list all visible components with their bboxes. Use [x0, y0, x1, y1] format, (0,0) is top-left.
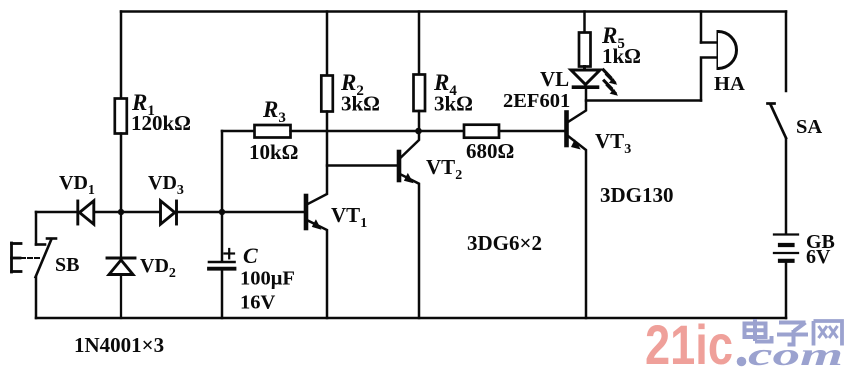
svg-text:1kΩ: 1kΩ [602, 44, 641, 68]
wire node to VD3 [124, 211, 161, 214]
wire R2 to VT1 collector [308, 112, 327, 205]
LED VL [571, 67, 600, 88]
svg-text:16V: 16V [240, 292, 276, 314]
wire R5 upper lead [583, 12, 586, 33]
watermark char zi [777, 323, 808, 345]
wire C branch vertical [221, 131, 224, 261]
resistor R3 [255, 125, 291, 138]
svg-text:VT2: VT2 [426, 155, 462, 183]
svg-text:C: C [243, 243, 258, 268]
switch SA blade [768, 104, 787, 139]
watermark char wang [814, 321, 843, 346]
wire VT2 base [327, 164, 397, 167]
svg-text:VT3: VT3 [595, 129, 631, 157]
diode VD3 [161, 201, 177, 224]
svg-text:3kΩ: 3kΩ [341, 92, 380, 116]
wire VD1 to node [94, 211, 118, 214]
capacitor C plus sign [225, 249, 235, 258]
svg-text:SA: SA [796, 116, 822, 138]
svg-text:2EF601: 2EF601 [503, 90, 570, 112]
wire SA lower lead [785, 139, 788, 234]
wire VD3 to VT1 base [177, 211, 305, 214]
watermark char dian [745, 319, 772, 342]
svg-text:SB: SB [55, 254, 79, 276]
svg-text:6V: 6V [806, 246, 831, 268]
resistor R5 [579, 33, 591, 67]
switch SB blade [36, 239, 57, 278]
svg-text:3DG6×2: 3DG6×2 [467, 231, 542, 255]
wire R1 upper lead [120, 12, 123, 99]
svg-text:680Ω: 680Ω [466, 139, 514, 163]
svg-text:VD1: VD1 [59, 172, 95, 198]
transistor VT1 [306, 196, 327, 318]
node junction A [118, 209, 124, 215]
wire R1 lower lead [120, 134, 123, 213]
wire VT3 collector to HA [586, 99, 701, 102]
transistor VT3 [567, 89, 587, 318]
wire R3 rail left [222, 130, 255, 133]
wire 680 to VT3 base [499, 130, 565, 133]
svg-text:R3: R3 [262, 97, 286, 126]
wire R2 upper lead [326, 12, 329, 76]
LED VL emission arrows [604, 70, 619, 96]
svg-text:120kΩ: 120kΩ [131, 111, 191, 135]
node junction R4-VT2 [415, 128, 422, 135]
svg-text:21ic: 21ic [645, 313, 733, 367]
transistor VT2 [399, 131, 419, 318]
wire R4 lower lead [418, 111, 421, 131]
wire SB top corner [35, 212, 38, 245]
wire SA upper lead [785, 12, 788, 92]
watermark dot [737, 357, 747, 367]
svg-text:VL: VL [540, 67, 569, 91]
svg-text:3DG130: 3DG130 [600, 183, 674, 207]
wire HA stubs [701, 43, 716, 101]
wire top rail [121, 10, 786, 13]
speaker HA [718, 32, 737, 69]
diode VD2 [107, 212, 135, 318]
svg-text:3kΩ: 3kΩ [434, 92, 473, 116]
wire bottom rail [36, 317, 786, 320]
wire R4 upper lead [418, 12, 421, 75]
switch SB actuator [12, 243, 22, 272]
switch SB dashed link [21, 257, 40, 259]
resistor R2 [321, 76, 333, 112]
svg-text:100μF: 100μF [240, 268, 295, 290]
battery GB [774, 235, 798, 261]
resistor R4 [414, 75, 426, 112]
wire SB lower lead [35, 277, 38, 318]
svg-text:1N4001×3: 1N4001×3 [74, 333, 164, 357]
svg-text:10kΩ: 10kΩ [249, 140, 299, 164]
svg-text:VT1: VT1 [331, 203, 367, 231]
wire left mid rail [36, 211, 76, 214]
wire GB lower lead [785, 261, 788, 318]
resistor 680 ohm [464, 125, 499, 138]
svg-text:VD3: VD3 [148, 172, 184, 198]
capacitor C [209, 262, 235, 269]
wire R3 rail mid [291, 130, 465, 133]
wire HA upper lead [700, 12, 703, 43]
svg-text:HA: HA [714, 73, 745, 95]
resistor R1 [115, 99, 127, 134]
diode VD1 [78, 201, 94, 224]
svg-text:VD2: VD2 [140, 255, 176, 281]
wire C lower lead [221, 269, 224, 318]
node junction B [219, 209, 225, 215]
